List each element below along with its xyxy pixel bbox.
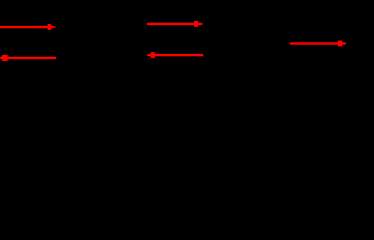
current arrow I4 (points left, lower-middle wire) <box>147 52 203 58</box>
current arrow I1 (points right, upper-left wire) <box>0 24 56 30</box>
current arrow I2 (points left, lower-left wire) <box>0 55 56 61</box>
current arrow I3 (points right, upper-middle wire) <box>147 21 203 27</box>
current arrow I5 (points right, right wire) <box>290 41 346 47</box>
